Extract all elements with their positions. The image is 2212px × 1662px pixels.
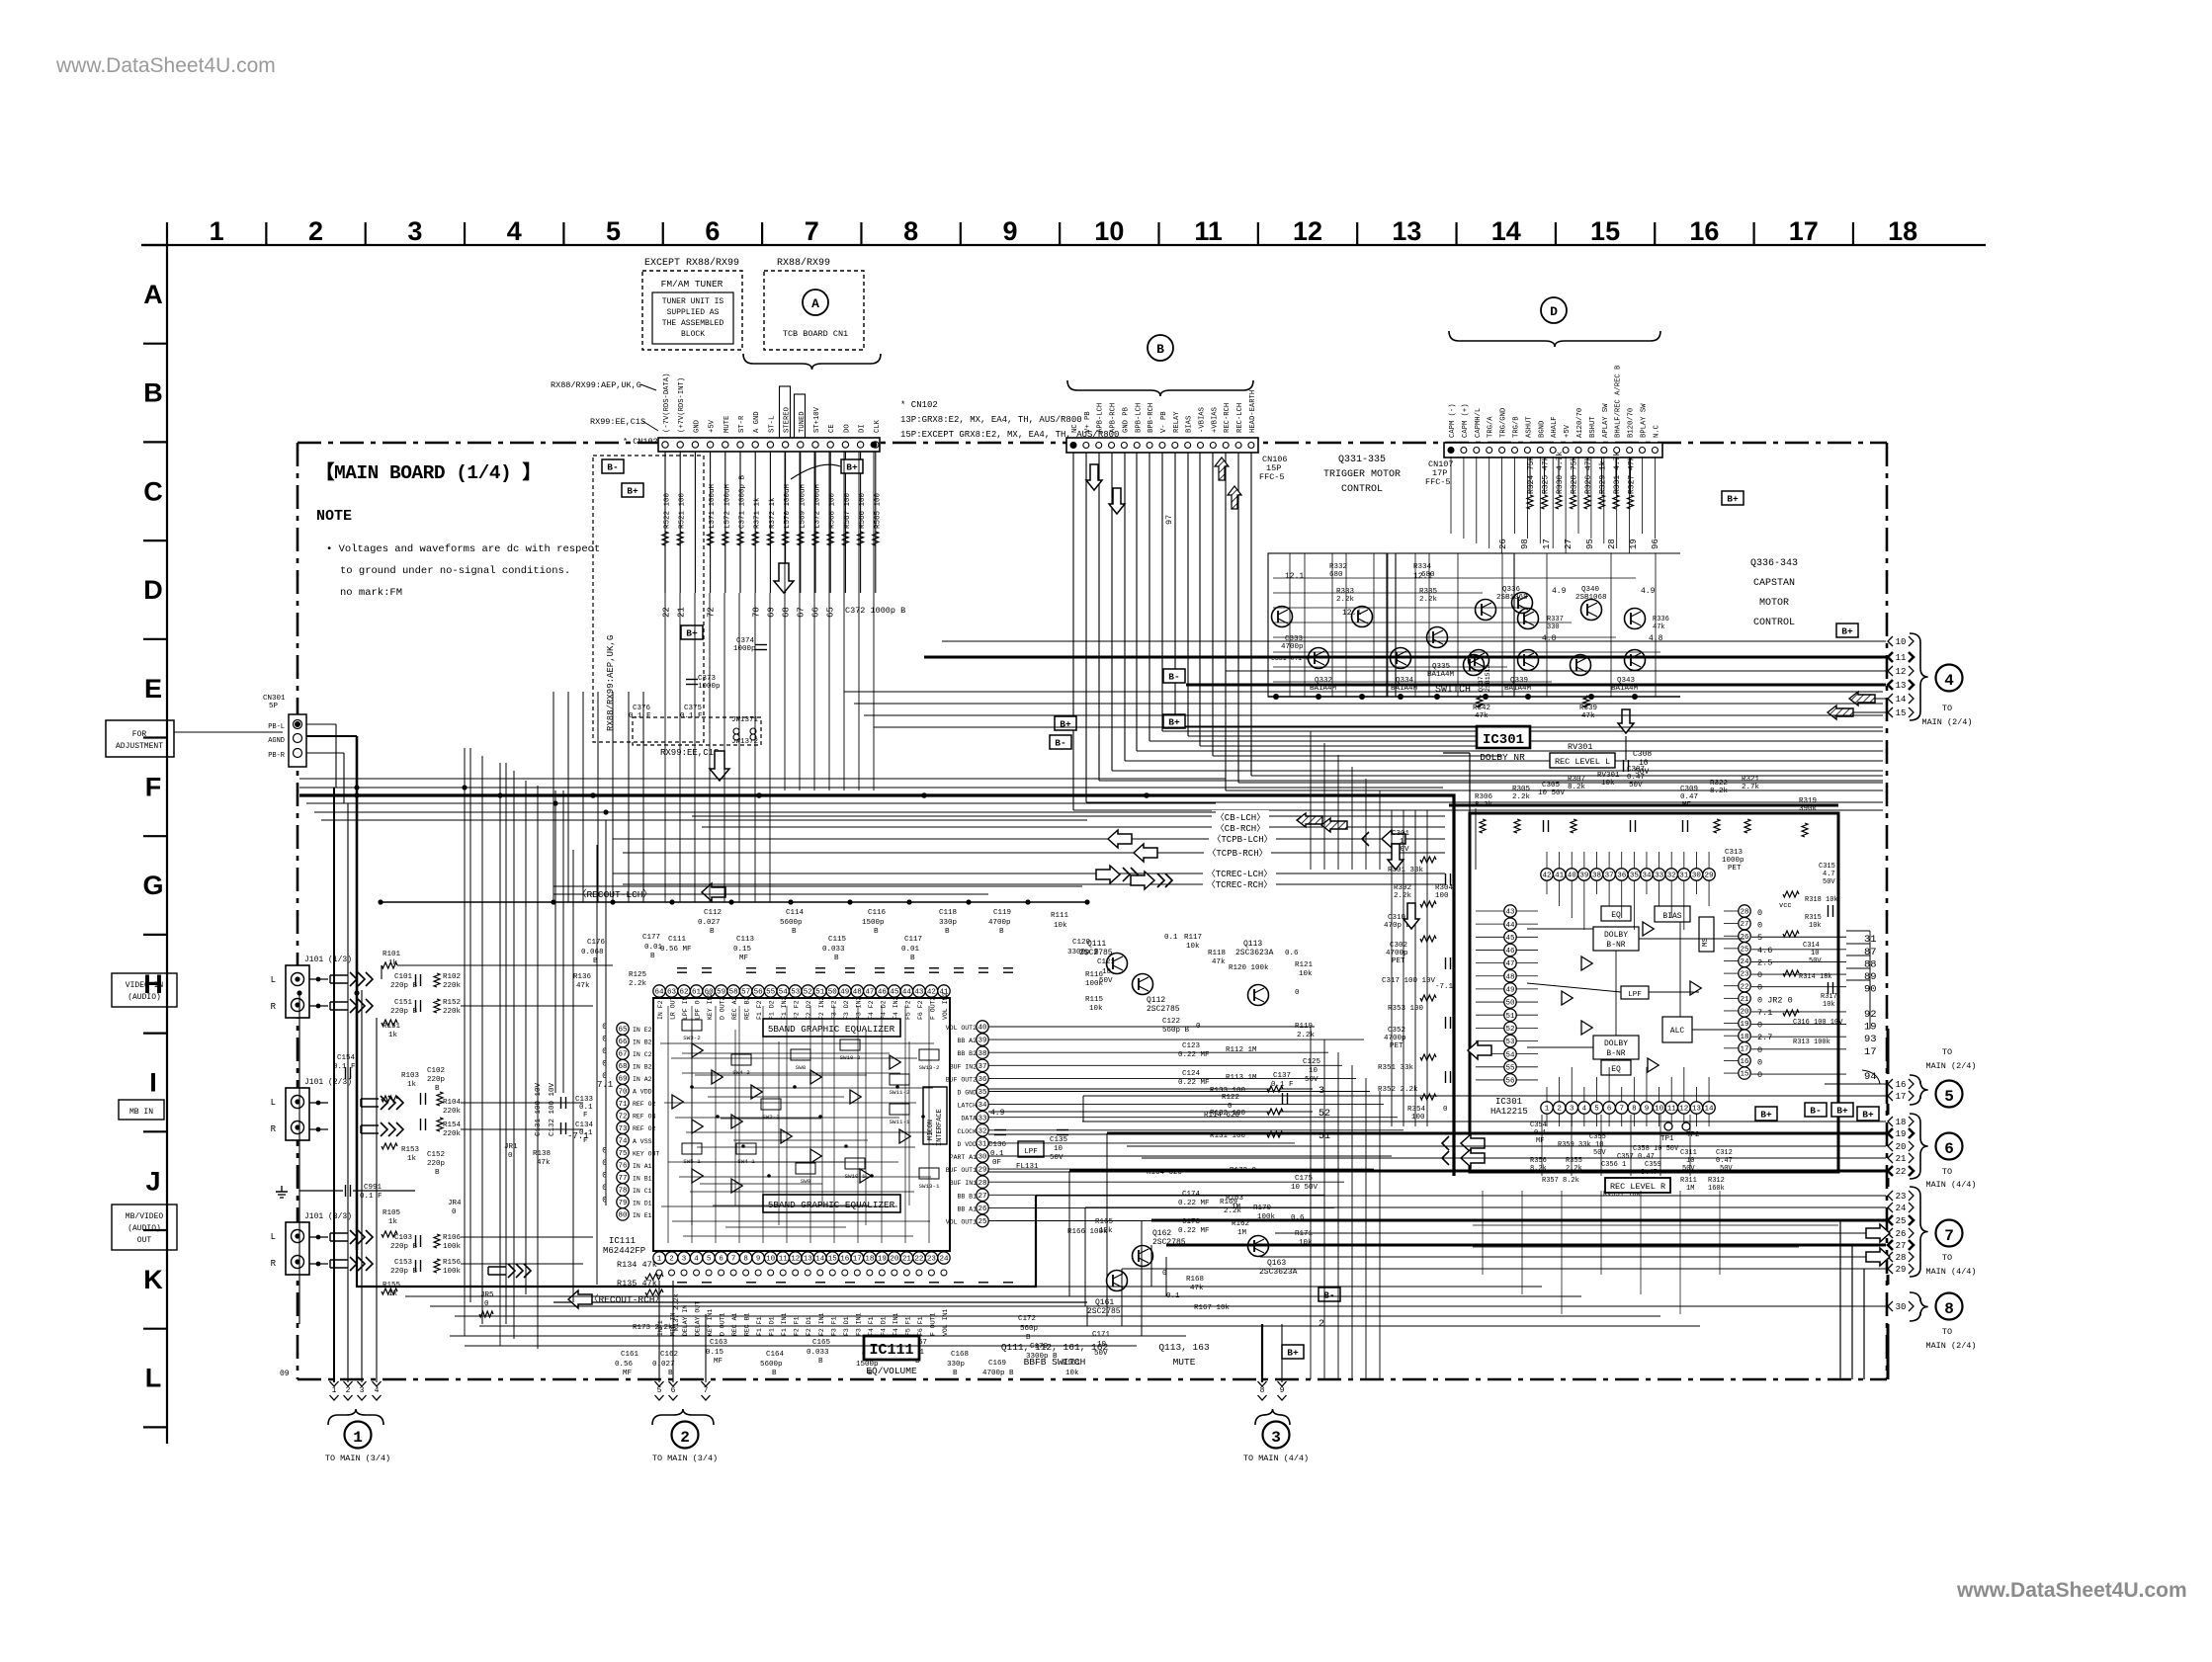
svg-text:76: 76 xyxy=(618,1162,628,1170)
svg-text:0.56: 0.56 xyxy=(615,1361,634,1369)
wire drop group2 xyxy=(658,1281,660,1382)
svg-text:R154: R154 xyxy=(443,1122,462,1129)
svg-text:2.2k: 2.2k xyxy=(1336,596,1355,604)
svg-text:72: 72 xyxy=(707,607,717,618)
node circle 1 xyxy=(345,1422,372,1449)
svg-text:FM/AM TUNER: FM/AM TUNER xyxy=(661,279,723,290)
svg-text:C125: C125 xyxy=(1303,1058,1321,1066)
svg-text:2SC3623A: 2SC3623A xyxy=(1235,949,1274,957)
wires IC111 right to risers xyxy=(988,1026,1315,1028)
svg-text:no mark:FM: no mark:FM xyxy=(340,587,402,599)
svg-text:〈TCPB-LCH〉: 〈TCPB-LCH〉 xyxy=(1212,834,1272,845)
svg-text:B: B xyxy=(435,1085,440,1093)
svg-text:4.9: 4.9 xyxy=(990,1109,1005,1118)
svg-text:RX99:EE,C1S: RX99:EE,C1S xyxy=(660,748,719,758)
svg-text:B: B xyxy=(435,1169,440,1177)
svg-text:4700p: 4700p xyxy=(988,919,1011,927)
svg-text:R305: R305 xyxy=(1512,786,1531,793)
svg-text:REC-RCH: REC-RCH xyxy=(1224,403,1232,433)
IC301 bottom pin row xyxy=(1541,1102,1553,1114)
svg-text:4.8: 4.8 xyxy=(1542,634,1557,643)
svg-text:MAIN (2/4): MAIN (2/4) xyxy=(1925,1341,1976,1351)
B- box right of IC111 xyxy=(1319,1288,1340,1301)
svg-text:5: 5 xyxy=(606,216,621,246)
svg-text:16: 16 xyxy=(1689,216,1719,246)
svg-text:R353 100: R353 100 xyxy=(1388,1005,1424,1013)
svg-text:BUF IN2: BUF IN2 xyxy=(950,1063,977,1070)
svg-text:R359 33k: R359 33k xyxy=(1558,1141,1591,1149)
svg-text:2.2k: 2.2k xyxy=(1512,793,1531,801)
svg-text:R: R xyxy=(271,1002,277,1012)
svg-text:B: B xyxy=(1026,1334,1031,1342)
svg-text:BLOCK: BLOCK xyxy=(681,330,705,339)
white down arrow near comb2 xyxy=(710,751,729,781)
svg-text:68: 68 xyxy=(782,607,792,618)
svg-text:VOL IN1: VOL IN1 xyxy=(942,1309,949,1336)
svg-text:BPLAY SW: BPLAY SW xyxy=(1641,403,1649,438)
svg-text:DOLBY NR: DOLBY NR xyxy=(1480,752,1525,763)
svg-text:25: 25 xyxy=(1740,946,1749,954)
svg-text:L: L xyxy=(271,975,276,985)
wires CN107 pins down to clusters xyxy=(1450,457,1452,534)
svg-text:R304: R304 xyxy=(1435,884,1454,892)
svg-text:Q113: Q113 xyxy=(1243,940,1262,949)
svg-text:9: 9 xyxy=(756,1256,761,1264)
svg-text:3: 3 xyxy=(1271,1429,1281,1447)
svg-text:to ground under no-signal cond: to ground under no-signal conditions. xyxy=(340,565,570,577)
ground near C991 xyxy=(281,1186,283,1192)
svg-text:8.2k: 8.2k xyxy=(1475,801,1493,809)
svg-text:36: 36 xyxy=(978,1076,987,1084)
svg-text:5: 5 xyxy=(657,1386,662,1395)
svg-text:34: 34 xyxy=(1642,873,1652,880)
input network symbols xyxy=(382,962,397,968)
svg-text:C116: C116 xyxy=(868,909,887,917)
svg-text:65: 65 xyxy=(618,1027,628,1035)
svg-text:6: 6 xyxy=(705,216,720,246)
svg-text:• Voltages and waveforms are d: • Voltages and waveforms are dc with res… xyxy=(326,543,600,555)
IC111 5band equalizer box bottom xyxy=(763,1195,900,1212)
svg-text:1M: 1M xyxy=(1686,1185,1694,1193)
svg-text:8: 8 xyxy=(903,216,918,246)
connector CN106 strip xyxy=(1066,438,1258,453)
svg-text:8.2k: 8.2k xyxy=(1710,788,1729,795)
white down arrow near CN102 xyxy=(774,563,794,593)
svg-text:REF O2: REF O2 xyxy=(633,1101,656,1108)
svg-text:46: 46 xyxy=(878,989,888,997)
svg-text:1: 1 xyxy=(353,1429,363,1447)
svg-text:L372 100uH: L372 100uH xyxy=(814,484,822,529)
curve arrow to B+ xyxy=(791,464,840,479)
svg-text:R105: R105 xyxy=(383,1209,401,1217)
svg-text:C114: C114 xyxy=(786,909,805,917)
svg-text:APLAY SW: APLAY SW xyxy=(1602,403,1610,438)
svg-text:ST-L: ST-L xyxy=(768,416,776,433)
svg-text:14: 14 xyxy=(1491,216,1521,246)
svg-text:TO: TO xyxy=(1942,1167,1952,1177)
svg-text:SW10-1: SW10-1 xyxy=(845,1173,866,1180)
svg-text:B: B xyxy=(910,955,915,962)
net B+ box mid xyxy=(1163,714,1185,728)
node circle 5 xyxy=(1936,1081,1963,1108)
node circle 6 xyxy=(1936,1133,1963,1160)
svg-text:C311: C311 xyxy=(1680,1149,1697,1157)
white down arrow on B wire 2 xyxy=(1109,488,1125,514)
svg-text:L: L xyxy=(271,1098,276,1108)
group 4 wires xyxy=(942,640,1886,642)
svg-text:REC LEVEL R: REC LEVEL R xyxy=(1610,1182,1665,1192)
svg-text:0: 0 xyxy=(1295,989,1300,997)
svg-text:10: 10 xyxy=(1309,1067,1319,1075)
svg-text:13: 13 xyxy=(804,1256,813,1264)
hatched arrow CB-LCH xyxy=(1297,813,1322,827)
svg-text:4: 4 xyxy=(375,1386,380,1395)
svg-text:SW11-2: SW11-2 xyxy=(890,1089,910,1096)
svg-text:-VBIAS: -VBIAS xyxy=(1199,407,1207,433)
svg-text:47k: 47k xyxy=(1475,712,1489,720)
svg-text:C101: C101 xyxy=(394,973,413,981)
svg-text:1k: 1k xyxy=(407,1155,417,1163)
svg-text:32: 32 xyxy=(1667,873,1676,880)
svg-text:50V: 50V xyxy=(1305,1076,1319,1084)
bottom group 2 brace xyxy=(652,1409,714,1425)
svg-text:10: 10 xyxy=(1595,1141,1603,1149)
down arrows left of IC301 xyxy=(1388,844,1404,870)
IC111 5band equalizer box top xyxy=(763,1019,900,1037)
svg-text:47k: 47k xyxy=(1653,623,1665,631)
svg-text:C312: C312 xyxy=(1716,1149,1733,1157)
svg-text:C356 1: C356 1 xyxy=(1601,1161,1626,1169)
wire drop group1 xyxy=(333,788,335,1382)
svg-text:R342: R342 xyxy=(1473,705,1490,712)
svg-text:B+: B+ xyxy=(1760,1110,1772,1121)
svg-text:10: 10 xyxy=(1896,637,1907,647)
svg-text:8: 8 xyxy=(743,1256,748,1264)
risers down from IC111 right xyxy=(1310,1027,1312,1379)
svg-text:B+: B+ xyxy=(1060,719,1071,730)
svg-text:10k: 10k xyxy=(1823,1001,1835,1009)
svg-text:9: 9 xyxy=(1645,1106,1650,1114)
svg-text:F4 IN2: F4 IN2 xyxy=(893,996,899,1020)
svg-text:R330 4.7k: R330 4.7k xyxy=(1556,452,1565,494)
svg-text:11: 11 xyxy=(1896,653,1907,663)
svg-text:EQ: EQ xyxy=(1611,911,1621,920)
cap symbols below IC111 xyxy=(677,1282,687,1284)
svg-text:B: B xyxy=(1156,342,1164,357)
svg-text:49: 49 xyxy=(1505,987,1514,995)
svg-text:VIDEO IN: VIDEO IN xyxy=(126,981,164,990)
svg-text:5P: 5P xyxy=(269,703,279,710)
svg-text:MF: MF xyxy=(739,955,748,962)
svg-text:97: 97 xyxy=(1164,515,1174,525)
svg-text:RELAY: RELAY xyxy=(1173,411,1181,433)
svg-text:4700p B: 4700p B xyxy=(982,1370,1014,1377)
net B+ under IC301 4 xyxy=(1857,1107,1879,1121)
svg-text:12: 12 xyxy=(791,1256,800,1264)
open arrow before 26 xyxy=(1866,1224,1890,1242)
left ruler ticks and letters xyxy=(143,244,167,246)
IC301 internal MS box xyxy=(1699,917,1714,952)
svg-text:TRIGGER MOTOR: TRIGGER MOTOR xyxy=(1323,469,1401,480)
svg-text:B: B xyxy=(792,928,797,936)
svg-text:4.9: 4.9 xyxy=(1552,587,1567,596)
svg-text:R311: R311 xyxy=(1680,1177,1697,1185)
svg-text:21: 21 xyxy=(1740,996,1749,1004)
svg-text:IN C1: IN C1 xyxy=(633,1188,652,1195)
svg-text:R354: R354 xyxy=(1407,1106,1426,1114)
svg-text:BB A2: BB A2 xyxy=(957,1038,977,1044)
svg-text:C118: C118 xyxy=(939,909,957,917)
svg-text:BGND: BGND xyxy=(1538,421,1546,438)
svg-text:5: 5 xyxy=(1594,1106,1599,1114)
bottom horizontal group 2 xyxy=(450,1335,1186,1337)
svg-text:F4 F2: F4 F2 xyxy=(868,1000,875,1020)
svg-text:IC301: IC301 xyxy=(1483,732,1524,748)
svg-text:0: 0 xyxy=(1757,1021,1762,1031)
svg-text:CONTROL: CONTROL xyxy=(1341,484,1383,495)
svg-text:V+ PB: V+ PB xyxy=(1084,411,1092,433)
svg-text:R329 1k: R329 1k xyxy=(1599,460,1608,494)
svg-text:0.01: 0.01 xyxy=(901,946,920,954)
svg-text:35: 35 xyxy=(1630,873,1640,880)
svg-text:F3 IN2: F3 IN2 xyxy=(855,996,862,1020)
jack output stub wires xyxy=(309,978,328,980)
svg-text:APB-RCH: APB-RCH xyxy=(1110,403,1118,433)
bottom thick wire xyxy=(357,1196,1036,1287)
svg-text:F: F xyxy=(145,773,162,802)
svg-text:1500p: 1500p xyxy=(862,919,885,927)
svg-text:2: 2 xyxy=(346,1386,351,1395)
svg-text:5: 5 xyxy=(707,1256,712,1264)
svg-text:21: 21 xyxy=(1896,1154,1907,1164)
svg-text:0.6: 0.6 xyxy=(1285,950,1299,957)
svg-text:MAIN (2/4): MAIN (2/4) xyxy=(1921,717,1972,727)
svg-text:54: 54 xyxy=(779,989,789,997)
wire bundle from connector B down xyxy=(1072,453,1074,810)
svg-text:17: 17 xyxy=(1896,1092,1907,1102)
IC111 micon interface box xyxy=(923,1087,947,1144)
IC301 internal DOLBY B-NR bottom xyxy=(1593,1036,1639,1059)
thick signal wire B bus xyxy=(299,795,1454,1176)
svg-text:70: 70 xyxy=(752,607,762,618)
svg-text:24: 24 xyxy=(939,1256,949,1264)
svg-text:R132 100: R132 100 xyxy=(1210,1110,1246,1118)
svg-text:30: 30 xyxy=(1692,873,1702,880)
svg-text:5600p: 5600p xyxy=(760,1361,783,1369)
svg-text:2.2k: 2.2k xyxy=(629,980,647,988)
svg-text:C357 0.47: C357 0.47 xyxy=(1617,1153,1655,1161)
svg-text:KEY IN2: KEY IN2 xyxy=(707,993,714,1020)
svg-text:7: 7 xyxy=(1944,1227,1954,1245)
svg-text:HA12215: HA12215 xyxy=(1490,1107,1528,1117)
svg-text:A: A xyxy=(143,280,163,309)
svg-text:4: 4 xyxy=(1582,1106,1587,1114)
svg-text:R168: R168 xyxy=(1186,1276,1204,1284)
svg-text:7: 7 xyxy=(704,1386,709,1395)
dashed box RX99 EE CIS xyxy=(633,717,761,745)
svg-text:B+: B+ xyxy=(627,486,638,497)
svg-text:R324 75k: R324 75k xyxy=(1527,456,1536,494)
svg-text:R522 100: R522 100 xyxy=(664,492,672,529)
svg-text:19: 19 xyxy=(1896,1129,1907,1139)
svg-text:47k: 47k xyxy=(1581,712,1595,720)
group 6 brace xyxy=(1910,1114,1928,1179)
svg-text:Q162: Q162 xyxy=(1152,1229,1171,1238)
svg-text:6: 6 xyxy=(719,1256,723,1264)
svg-text:1000p: 1000p xyxy=(1722,857,1744,865)
svg-text:32: 32 xyxy=(978,1127,986,1135)
IC301 internal LPF box xyxy=(1621,986,1649,999)
svg-text:0.1: 0.1 xyxy=(990,1150,1004,1158)
main board border (dash-dot) xyxy=(298,442,1887,445)
svg-text:LPF O: LPF O xyxy=(695,1000,702,1020)
open arrow TCPB-RCH left xyxy=(1134,844,1157,862)
svg-text:12.1: 12.1 xyxy=(1285,572,1304,581)
svg-text:330p: 330p xyxy=(947,1361,965,1369)
svg-text:IN C2: IN C2 xyxy=(633,1051,652,1058)
svg-text:1M: 1M xyxy=(1237,1229,1247,1237)
svg-text:B+: B+ xyxy=(1836,1106,1848,1117)
svg-text:17: 17 xyxy=(853,1256,862,1264)
left arrow into IC301 xyxy=(1468,1041,1491,1059)
svg-text:R134 47k: R134 47k xyxy=(617,1260,657,1270)
svg-text:100k: 100k xyxy=(443,1243,462,1251)
node circle 7 xyxy=(1936,1220,1963,1247)
connector CN102 xyxy=(658,438,880,452)
svg-text:BBFB SWITCH: BBFB SWITCH xyxy=(1024,1357,1086,1368)
svg-text:A GND: A GND xyxy=(753,411,761,433)
svg-text:47k: 47k xyxy=(1212,958,1226,966)
label box VIDEO IN xyxy=(112,973,177,1007)
svg-text:Q331-335: Q331-335 xyxy=(1338,455,1386,465)
capacitor C373 xyxy=(686,679,698,681)
net B+ box left bus xyxy=(1055,716,1076,730)
svg-text:R307: R307 xyxy=(1568,776,1585,784)
svg-text:L: L xyxy=(145,1364,162,1393)
wire drop group3 xyxy=(1261,1324,1263,1382)
svg-text:29: 29 xyxy=(1896,1265,1907,1275)
svg-text:8: 8 xyxy=(1944,1300,1954,1318)
svg-text:R328 75k: R328 75k xyxy=(1571,456,1579,494)
svg-text:B: B xyxy=(834,955,839,962)
svg-text:52: 52 xyxy=(804,989,812,997)
svg-text:34: 34 xyxy=(978,1102,987,1110)
svg-text:18: 18 xyxy=(1896,1118,1907,1127)
svg-text:51: 51 xyxy=(815,989,825,997)
svg-text:15: 15 xyxy=(1740,1071,1749,1079)
svg-text:NC: NC xyxy=(1071,424,1079,433)
svg-text:29: 29 xyxy=(978,1167,986,1175)
svg-text:Q163: Q163 xyxy=(1267,1259,1286,1268)
svg-text:59: 59 xyxy=(717,989,725,997)
svg-text:R317: R317 xyxy=(1821,993,1837,1001)
svg-text:C373: C373 xyxy=(698,675,717,683)
dashed box RX88/RX99 AEP UK G xyxy=(593,456,704,742)
svg-text:IN A2: IN A2 xyxy=(633,1076,652,1083)
svg-text:220k: 220k xyxy=(443,1108,462,1116)
svg-text:DOLBY: DOLBY xyxy=(1604,1039,1628,1048)
svg-text:vcc: vcc xyxy=(1779,902,1792,910)
svg-text:R167 10k: R167 10k xyxy=(1194,1304,1231,1312)
svg-text:49: 49 xyxy=(840,989,849,997)
svg-text:2: 2 xyxy=(308,216,323,246)
IC301 internal DOLBY B-NR top xyxy=(1593,927,1639,951)
svg-text:58: 58 xyxy=(729,989,738,997)
svg-text:-7.1: -7.1 xyxy=(567,1131,589,1141)
svg-text:MF: MF xyxy=(714,1358,723,1366)
svg-text:48: 48 xyxy=(853,989,862,997)
svg-text:98: 98 xyxy=(1520,539,1530,549)
op-amp IC301 outline xyxy=(1470,813,1838,1172)
svg-text:25: 25 xyxy=(1896,1216,1907,1226)
svg-text:GND: GND xyxy=(693,420,701,433)
svg-text:F2 IN2: F2 IN2 xyxy=(818,996,825,1020)
svg-text:VOL OUT2: VOL OUT2 xyxy=(946,1025,977,1032)
svg-text:E: E xyxy=(144,674,162,704)
IC301 top pin stubs xyxy=(1546,880,1548,894)
svg-text:TO: TO xyxy=(1942,1047,1952,1057)
svg-text:8: 8 xyxy=(1260,1386,1265,1395)
svg-text:C376: C376 xyxy=(633,705,651,712)
FL131 LPF box xyxy=(1018,1141,1044,1157)
svg-text:EQ: EQ xyxy=(1611,1065,1621,1074)
svg-text:CONTROL: CONTROL xyxy=(1753,618,1795,628)
svg-text:B: B xyxy=(999,928,1004,936)
svg-text:BIAS: BIAS xyxy=(1662,912,1681,921)
svg-text:R371 1k: R371 1k xyxy=(754,497,762,529)
IC301 right pin col xyxy=(1739,905,1750,917)
label box REC LEVEL L xyxy=(1550,753,1615,768)
net TCPB-RCH wire xyxy=(623,852,1445,854)
IC301 top pin row xyxy=(1541,869,1553,880)
svg-text:Q111: Q111 xyxy=(1087,940,1106,949)
svg-text:R112 1M: R112 1M xyxy=(1226,1046,1257,1054)
svg-text:L569 100uH: L569 100uH xyxy=(799,484,807,529)
node circle 4 xyxy=(1936,665,1963,692)
svg-text:27: 27 xyxy=(1740,921,1748,929)
bottom group 3 tags xyxy=(1258,1381,1267,1386)
svg-text:BIAS: BIAS xyxy=(1186,416,1194,433)
svg-text:37: 37 xyxy=(978,1063,986,1071)
svg-text:3: 3 xyxy=(682,1256,687,1264)
svg-text:39: 39 xyxy=(978,1038,986,1045)
svg-text:9: 9 xyxy=(1280,1386,1285,1395)
net CB-RCH wire xyxy=(702,826,1445,828)
svg-text:0: 0 xyxy=(508,1152,513,1160)
svg-text:C134: C134 xyxy=(575,1122,594,1129)
svg-text:50V: 50V xyxy=(1809,957,1822,965)
IC301 bottom wires down xyxy=(1541,1115,1543,1176)
svg-text:45: 45 xyxy=(1505,935,1515,943)
IC111 extra interior texture xyxy=(682,1052,890,1054)
svg-text:42: 42 xyxy=(1542,873,1551,880)
svg-text:C315: C315 xyxy=(1819,863,1835,871)
svg-text:27: 27 xyxy=(978,1193,986,1201)
svg-text:〈TCREC-RCH〉: 〈TCREC-RCH〉 xyxy=(1207,879,1273,890)
svg-text:7: 7 xyxy=(731,1256,736,1264)
svg-text:C164: C164 xyxy=(766,1351,785,1359)
svg-text:69: 69 xyxy=(618,1076,627,1084)
svg-text:R352 2.2k: R352 2.2k xyxy=(1378,1086,1418,1094)
svg-text:1000p: 1000p xyxy=(733,645,756,653)
svg-text:22: 22 xyxy=(914,1256,923,1264)
svg-text:47k: 47k xyxy=(537,1159,551,1167)
svg-text:2SB1513: 2SB1513 xyxy=(1485,665,1491,692)
svg-text:20: 20 xyxy=(1740,1009,1749,1017)
svg-text:NOTE: NOTE xyxy=(316,508,352,525)
svg-text:B-: B- xyxy=(1323,1290,1334,1301)
transistor Q111 xyxy=(1107,954,1128,974)
